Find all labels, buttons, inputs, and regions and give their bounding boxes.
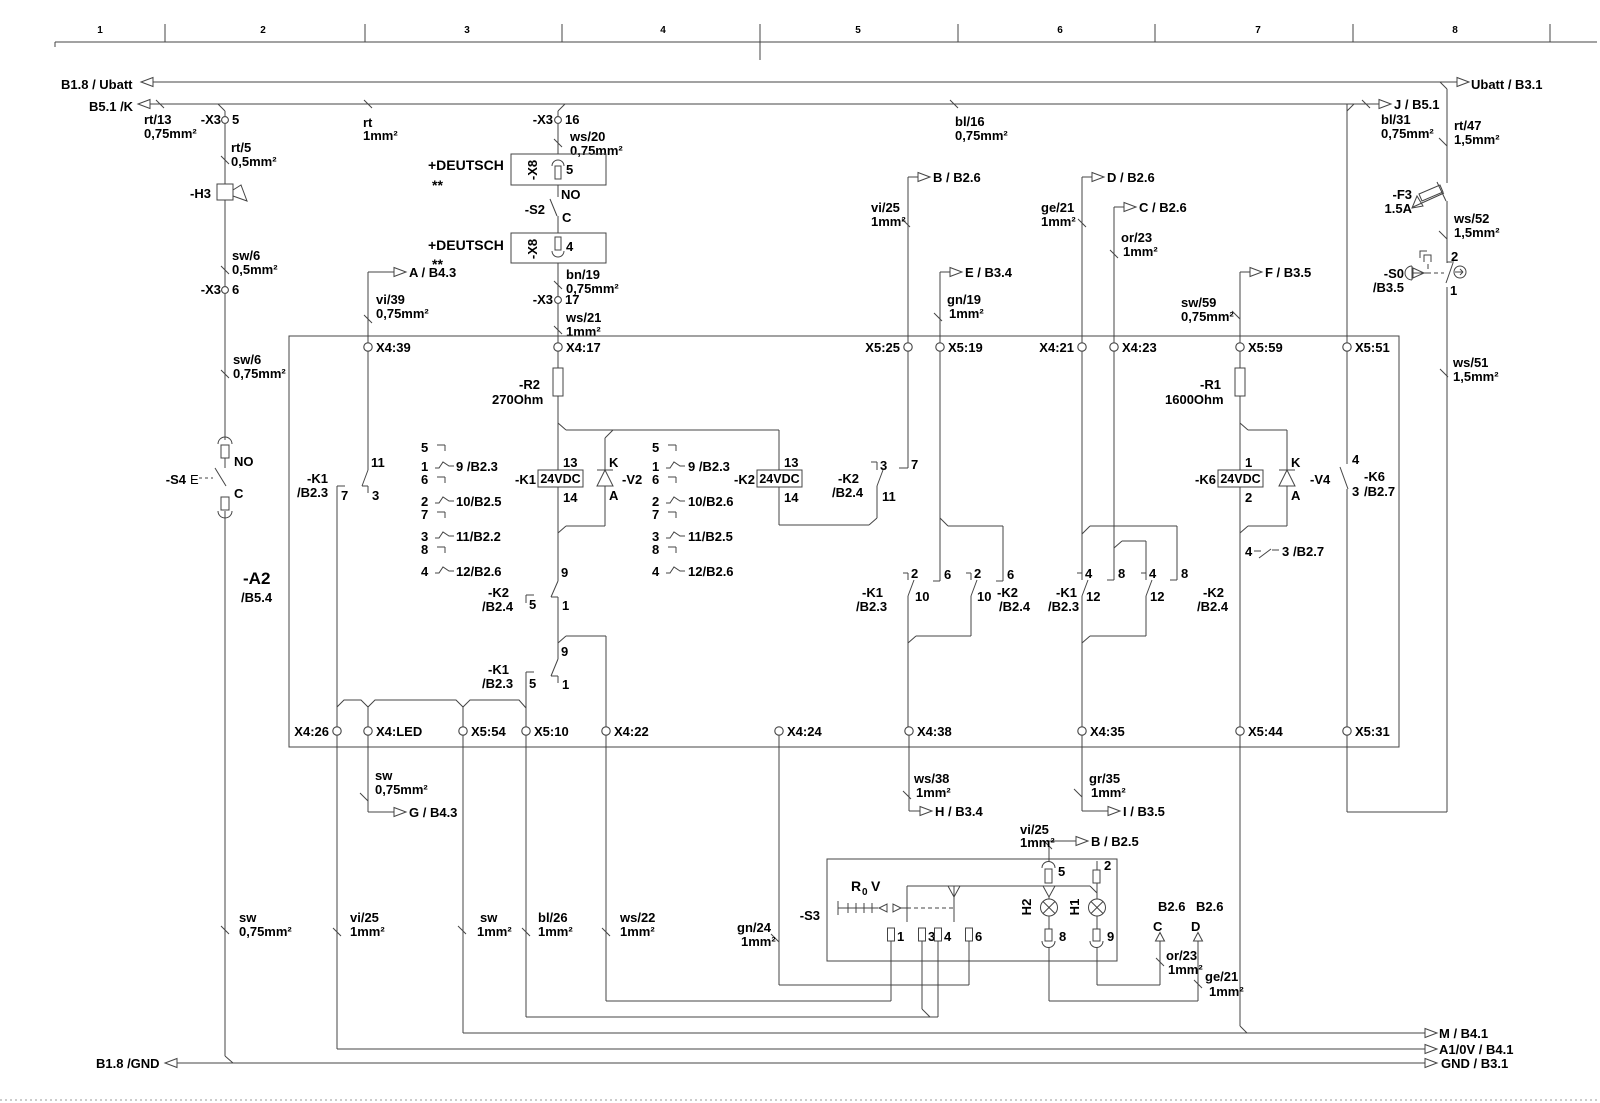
svg-text:14: 14 [784,490,799,505]
svg-text:D: D [1191,919,1200,934]
svg-text:X5:51: X5:51 [1355,340,1390,355]
svg-text:7: 7 [421,507,428,522]
svg-text:0,75mm²: 0,75mm² [1381,126,1434,141]
svg-text:GND / B3.1: GND / B3.1 [1441,1056,1508,1071]
svg-text:3: 3 [1282,544,1289,559]
svg-text:4: 4 [660,25,666,36]
svg-text:B1.8 /GND: B1.8 /GND [96,1056,160,1071]
svg-text:0: 0 [862,887,868,898]
svg-text:0,75mm²: 0,75mm² [570,143,623,158]
svg-text:0,75mm²: 0,75mm² [144,126,197,141]
svg-text:D / B2.6: D / B2.6 [1107,170,1155,185]
svg-text:4: 4 [566,239,574,254]
svg-text:NO: NO [561,187,581,202]
svg-text:1: 1 [1245,455,1252,470]
svg-text:1mm²: 1mm² [916,785,951,800]
svg-text:-K2: -K2 [997,585,1018,600]
svg-text:vi/25: vi/25 [871,200,900,215]
svg-text:-F3: -F3 [1393,187,1413,202]
svg-text:Ubatt / B3.1: Ubatt / B3.1 [1471,77,1543,92]
svg-text:6: 6 [232,282,239,297]
svg-text:E: E [190,472,199,487]
svg-text:vi/39: vi/39 [376,292,405,307]
svg-text:/B2.4: /B2.4 [482,599,514,614]
svg-text:X5:31: X5:31 [1355,724,1390,739]
svg-text:1mm²: 1mm² [1123,244,1158,259]
svg-text:1: 1 [897,929,904,944]
svg-text:or/23: or/23 [1166,948,1197,963]
svg-text:A: A [1291,488,1301,503]
svg-text:X4:22: X4:22 [614,724,649,739]
svg-text:vi/25: vi/25 [350,910,379,925]
svg-text:1: 1 [97,25,103,36]
svg-text:1,5mm²: 1,5mm² [1454,132,1500,147]
svg-text:1mm²: 1mm² [620,924,655,939]
svg-text:-V2: -V2 [622,472,642,487]
svg-text:12: 12 [1150,589,1164,604]
svg-text:4: 4 [1149,566,1157,581]
svg-text:12/B2.6: 12/B2.6 [688,564,734,579]
svg-text:11/B2.5: 11/B2.5 [688,529,733,544]
svg-text:C: C [1153,919,1163,934]
svg-text:1mm²: 1mm² [477,924,512,939]
svg-text:I / B3.5: I / B3.5 [1123,804,1165,819]
svg-text:7: 7 [911,457,918,472]
svg-text:8: 8 [421,542,428,557]
svg-text:A / B4.3: A / B4.3 [409,265,456,280]
svg-text:B2.6: B2.6 [1196,899,1223,914]
svg-text:X4:39: X4:39 [376,340,411,355]
svg-text:1mm²: 1mm² [1041,214,1076,229]
svg-text:0,5mm²: 0,5mm² [231,154,277,169]
svg-text:5: 5 [421,440,428,455]
svg-text:4: 4 [1085,566,1093,581]
svg-text:3: 3 [372,488,379,503]
svg-text:5: 5 [232,112,239,127]
svg-text:1mm²: 1mm² [741,934,776,949]
svg-text:1: 1 [562,677,569,692]
svg-text:12/B2.6: 12/B2.6 [456,564,502,579]
svg-text:2: 2 [1104,858,1111,873]
svg-text:7: 7 [341,488,348,503]
svg-text:0,5mm²: 0,5mm² [232,262,278,277]
svg-text:8: 8 [1452,25,1458,36]
svg-text:-S2: -S2 [525,202,545,217]
svg-text:4: 4 [1352,452,1360,467]
svg-text:ws/20: ws/20 [569,129,605,144]
svg-text:7: 7 [1255,25,1261,36]
svg-text:6: 6 [652,472,659,487]
svg-text:X5:59: X5:59 [1248,340,1283,355]
svg-text:+DEUTSCH: +DEUTSCH [428,157,504,173]
svg-text:-K1: -K1 [1056,585,1077,600]
svg-text:X4:23: X4:23 [1122,340,1157,355]
svg-text:0,75mm²: 0,75mm² [955,128,1008,143]
svg-text:H / B3.4: H / B3.4 [935,804,983,819]
svg-text:H1: H1 [1067,899,1082,916]
svg-text:-K1: -K1 [307,471,328,486]
svg-text:X5:19: X5:19 [948,340,983,355]
svg-text:-R2: -R2 [519,377,540,392]
svg-text:-A2: -A2 [243,569,270,588]
svg-text:-K2: -K2 [838,471,859,486]
svg-text:1mm²: 1mm² [949,306,984,321]
svg-text:/B2.3: /B2.3 [856,599,887,614]
svg-text:24VDC: 24VDC [759,472,799,486]
svg-text:1mm²: 1mm² [1168,962,1203,977]
svg-text:-K6: -K6 [1364,469,1385,484]
svg-text:bn/19: bn/19 [566,267,600,282]
svg-text:-X3: -X3 [201,282,221,297]
svg-text:1mm²: 1mm² [363,128,398,143]
svg-text:**: ** [432,177,443,193]
svg-text:3: 3 [880,458,887,473]
svg-text:-S3: -S3 [800,908,820,923]
svg-text:1mm²: 1mm² [566,324,601,339]
svg-text:11/B2.2: 11/B2.2 [456,529,501,544]
svg-text:1mm²: 1mm² [1091,785,1126,800]
svg-text:8: 8 [1118,566,1125,581]
svg-text:13: 13 [784,455,798,470]
svg-text:-X8: -X8 [525,160,540,180]
svg-text:F / B3.5: F / B3.5 [1265,265,1311,280]
svg-text:6: 6 [975,929,982,944]
svg-text:-K2: -K2 [1203,585,1224,600]
svg-text:B1.8 / Ubatt: B1.8 / Ubatt [61,77,133,92]
svg-text:C: C [234,486,244,501]
svg-text:ws/38: ws/38 [913,771,949,786]
svg-text:X5:25: X5:25 [865,340,900,355]
svg-text:24VDC: 24VDC [1220,472,1260,486]
svg-text:5: 5 [652,440,659,455]
svg-text:2: 2 [260,25,266,36]
svg-text:7: 7 [652,507,659,522]
svg-text:1mm²: 1mm² [1209,984,1244,999]
svg-text:5: 5 [529,676,536,691]
svg-text:K: K [1291,455,1301,470]
svg-text:5: 5 [529,597,536,612]
svg-text:1mm²: 1mm² [871,214,906,229]
svg-text:10/B2.6: 10/B2.6 [688,494,734,509]
svg-text:-X3: -X3 [533,292,553,307]
svg-text:A1/0V / B4.1: A1/0V / B4.1 [1439,1042,1513,1057]
svg-text:1mm²: 1mm² [350,924,385,939]
svg-text:/B2.3: /B2.3 [482,676,513,691]
svg-text:bl/31: bl/31 [1381,112,1411,127]
svg-text:6: 6 [1007,567,1014,582]
svg-text:-K1: -K1 [515,472,536,487]
svg-text:6: 6 [421,472,428,487]
svg-text:-X3: -X3 [533,112,553,127]
svg-text:J / B5.1: J / B5.1 [1394,97,1440,112]
svg-text:X4:26: X4:26 [294,724,329,739]
svg-text:sw: sw [375,768,393,783]
svg-text:0,75mm²: 0,75mm² [239,924,292,939]
svg-text:8: 8 [1059,929,1066,944]
svg-text:-R1: -R1 [1200,377,1221,392]
svg-text:X4:21: X4:21 [1039,340,1074,355]
svg-text:5: 5 [566,162,573,177]
svg-text:3: 3 [1352,484,1359,499]
svg-text:X4:24: X4:24 [787,724,822,739]
svg-text:X5:54: X5:54 [471,724,506,739]
svg-text:6: 6 [1057,25,1063,36]
svg-text:9 /B2.3: 9 /B2.3 [456,459,498,474]
svg-text:B / B2.6: B / B2.6 [933,170,981,185]
svg-text:C / B2.6: C / B2.6 [1139,200,1187,215]
svg-text:A: A [609,488,619,503]
svg-text:16: 16 [565,112,579,127]
svg-text:X4:35: X4:35 [1090,724,1125,739]
svg-text:/B2.7: /B2.7 [1364,484,1395,499]
svg-text:2: 2 [1245,490,1252,505]
svg-text:E / B3.4: E / B3.4 [965,265,1013,280]
svg-text:X5:10: X5:10 [534,724,569,739]
svg-text:/B2.3: /B2.3 [1048,599,1079,614]
svg-text:gn/19: gn/19 [947,292,981,307]
svg-text:X4:LED: X4:LED [376,724,422,739]
svg-text:10: 10 [915,589,929,604]
svg-text:10/B2.5: 10/B2.5 [456,494,502,509]
svg-text:ge/21: ge/21 [1041,200,1074,215]
svg-text:3: 3 [464,25,470,36]
svg-text:ws/52: ws/52 [1453,211,1489,226]
svg-text:/B2.3: /B2.3 [297,485,328,500]
svg-text:270Ohm: 270Ohm [492,392,543,407]
svg-text:8: 8 [1181,566,1188,581]
svg-text:gn/24: gn/24 [737,920,772,935]
svg-text:1mm²: 1mm² [538,924,573,939]
svg-text:B2.6: B2.6 [1158,899,1185,914]
svg-text:/B2.7: /B2.7 [1293,544,1324,559]
svg-text:sw: sw [480,910,498,925]
svg-text:-K1: -K1 [862,585,883,600]
svg-text:-K1: -K1 [488,662,509,677]
svg-text:11: 11 [371,455,385,470]
svg-text:-X8: -X8 [525,239,540,259]
svg-text:-K2: -K2 [734,472,755,487]
svg-text:17: 17 [565,292,579,307]
svg-text:9: 9 [561,644,568,659]
svg-text:1: 1 [562,598,569,613]
svg-text:/B2.4: /B2.4 [1197,599,1229,614]
svg-text:/B2.4: /B2.4 [999,599,1031,614]
svg-text:ws/22: ws/22 [619,910,655,925]
svg-text:6: 6 [944,567,951,582]
svg-text:bl/26: bl/26 [538,910,568,925]
svg-text:2: 2 [974,566,981,581]
svg-text:NO: NO [234,454,254,469]
svg-text:-V4: -V4 [1310,472,1331,487]
svg-text:9: 9 [561,565,568,580]
svg-text:8: 8 [652,542,659,557]
svg-text:H2: H2 [1019,899,1034,916]
svg-text:sw/59: sw/59 [1181,295,1216,310]
svg-text:ws/51: ws/51 [1452,355,1488,370]
svg-text:-S0: -S0 [1384,266,1404,281]
svg-text:M / B4.1: M / B4.1 [1439,1026,1488,1041]
svg-text:rt/5: rt/5 [231,140,251,155]
svg-text:4: 4 [1245,544,1253,559]
svg-text:B / B2.5: B / B2.5 [1091,834,1139,849]
svg-text:1: 1 [1450,283,1457,298]
svg-text:R: R [851,878,861,894]
svg-text:5: 5 [855,25,861,36]
svg-text:4: 4 [421,564,429,579]
svg-text:14: 14 [563,490,578,505]
svg-text:+DEUTSCH: +DEUTSCH [428,237,504,253]
svg-text:5: 5 [1058,864,1065,879]
svg-text:bl/16: bl/16 [955,114,985,129]
svg-text:sw: sw [239,910,257,925]
svg-text:B5.1 /K: B5.1 /K [89,99,134,114]
svg-text:9: 9 [1107,929,1114,944]
svg-text:G / B4.3: G / B4.3 [409,805,457,820]
svg-text:/B3.5: /B3.5 [1373,280,1404,295]
svg-text:V: V [871,878,881,894]
svg-text:1,5mm²: 1,5mm² [1454,225,1500,240]
svg-text:rt/47: rt/47 [1454,118,1481,133]
svg-text:10: 10 [977,589,991,604]
svg-text:-K2: -K2 [488,585,509,600]
svg-text:ws/21: ws/21 [565,310,601,325]
svg-text:-K6: -K6 [1195,472,1216,487]
svg-text:1,5mm²: 1,5mm² [1453,369,1499,384]
svg-text:rt/13: rt/13 [144,112,171,127]
svg-text:4: 4 [944,929,952,944]
svg-text:gr/35: gr/35 [1089,771,1120,786]
svg-text:11: 11 [882,489,896,504]
svg-text:0,75mm²: 0,75mm² [233,366,286,381]
svg-text:4: 4 [652,564,660,579]
svg-text:X4:38: X4:38 [917,724,952,739]
svg-text:-S4: -S4 [166,472,187,487]
svg-text:X4:17: X4:17 [566,340,601,355]
svg-text:13: 13 [563,455,577,470]
svg-text:K: K [609,455,619,470]
svg-text:ge/21: ge/21 [1205,969,1238,984]
svg-text:/B5.4: /B5.4 [241,590,273,605]
svg-text:C: C [562,210,572,225]
svg-text:0,75mm²: 0,75mm² [376,306,429,321]
svg-text:-H3: -H3 [190,186,211,201]
svg-text:1600Ohm: 1600Ohm [1165,392,1224,407]
svg-text:24VDC: 24VDC [540,472,580,486]
svg-text:0,75mm²: 0,75mm² [375,782,428,797]
svg-text:1.5A: 1.5A [1385,201,1413,216]
svg-text:9 /B2.3: 9 /B2.3 [688,459,730,474]
svg-text:2: 2 [911,566,918,581]
svg-text:X5:44: X5:44 [1248,724,1283,739]
svg-text:sw/6: sw/6 [233,352,261,367]
svg-text:0,75mm²: 0,75mm² [1181,309,1234,324]
svg-text:or/23: or/23 [1121,230,1152,245]
svg-text:/B2.4: /B2.4 [832,485,864,500]
svg-text:-X3: -X3 [201,112,221,127]
svg-text:1mm²: 1mm² [1020,835,1055,850]
svg-text:sw/6: sw/6 [232,248,260,263]
svg-text:12: 12 [1086,589,1100,604]
